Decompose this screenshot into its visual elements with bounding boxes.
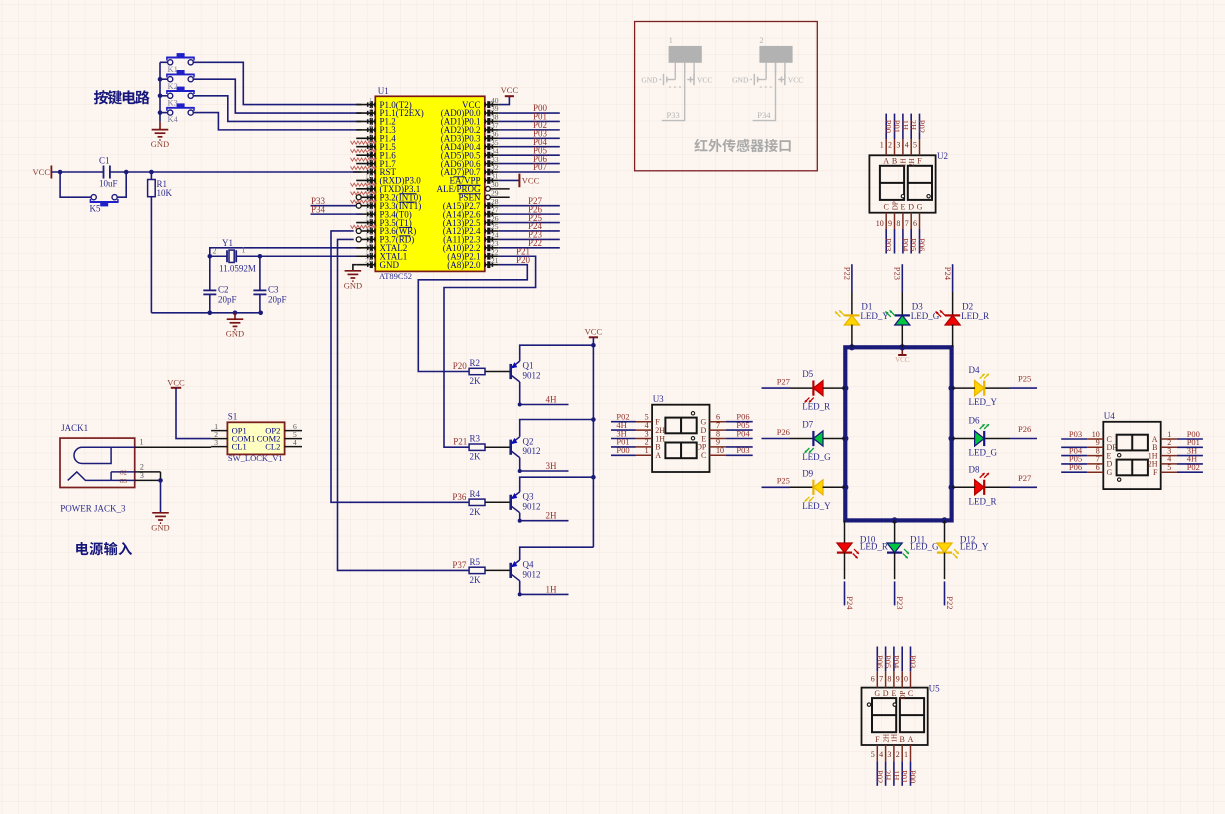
wire net P01 (U4 right) xyxy=(1177,437,1203,447)
wire Q1 collector / net 4H xyxy=(518,382,569,407)
svg-text:P00: P00 xyxy=(616,445,629,455)
wire net P20 (pin21 to R2) xyxy=(418,255,530,372)
wire net P22 (top) xyxy=(842,264,852,315)
svg-text:9012: 9012 xyxy=(523,446,541,456)
svg-text:9012: 9012 xyxy=(523,569,541,579)
svg-text:VCC: VCC xyxy=(522,176,540,186)
wire net P04 (U3 right) xyxy=(726,428,753,438)
U4 right pin 5 xyxy=(1153,463,1177,477)
U3 right pin 10 xyxy=(701,446,726,460)
resistor R3 2K xyxy=(469,434,485,462)
U4 left pin 10 xyxy=(1087,430,1112,444)
wire Q3 emitter to VCC rail xyxy=(520,475,596,492)
op-amp U1 AT89C52 MCU body xyxy=(375,86,485,281)
U2 bottom pin 7 xyxy=(905,203,915,229)
wire net P00 (U4 right) xyxy=(1177,429,1203,439)
U1 pin 36 (AD3)P0.3 xyxy=(441,130,499,144)
resistor R5 2K xyxy=(469,557,485,585)
svg-text:1: 1 xyxy=(904,750,908,759)
svg-text:Q3: Q3 xyxy=(523,492,534,502)
U5 top pin 8 xyxy=(887,671,896,698)
svg-text:4H: 4H xyxy=(546,395,558,405)
svg-text:P23: P23 xyxy=(893,267,903,280)
wire P01 + net label xyxy=(499,112,560,122)
svg-text:9: 9 xyxy=(888,219,892,228)
U3 left pin 1 xyxy=(636,446,661,460)
U1 pin 26 (A13)P2.5 xyxy=(443,214,499,228)
power port VCC (pin31 EA/VPP) xyxy=(499,174,540,188)
U1 pin 4 P1.3 xyxy=(356,121,396,135)
svg-text:F: F xyxy=(917,157,922,166)
wire net P03 (U4 left) xyxy=(1061,429,1087,439)
U1 pin 13 P3.3(INT1) xyxy=(356,197,421,211)
U3 right pin 6 xyxy=(701,413,726,427)
U2 top pin 5 xyxy=(913,139,922,166)
wire net P03 (U3 right) xyxy=(726,445,753,455)
U1 pin 21 (A8)P2.0 xyxy=(447,256,499,270)
U1 pin 40 VCC xyxy=(462,96,499,110)
U4 right pin 1 xyxy=(1152,430,1177,444)
U1 pin 22 (A9)P2.1 xyxy=(447,247,499,261)
U3 left pin 3 xyxy=(636,429,665,443)
pushbutton K4 xyxy=(160,103,195,124)
U1 pin 25 (A12)P2.4 xyxy=(443,222,499,236)
svg-text:B: B xyxy=(892,157,897,166)
wire JACK1 sleeve to ground xyxy=(135,472,163,513)
wire net P05 (U5 top) xyxy=(883,647,893,672)
wire net P06 (U3 right) xyxy=(726,412,753,422)
U5 top pin 6 xyxy=(871,671,881,698)
svg-text:9012: 9012 xyxy=(523,371,541,381)
svg-text:P24: P24 xyxy=(943,267,953,281)
svg-text:D8: D8 xyxy=(969,464,980,474)
wire net P04 (U4 left) xyxy=(1061,445,1087,455)
U5 bottom pin 2 xyxy=(896,735,905,761)
caption 电源输入 xyxy=(76,542,132,555)
svg-text:2K: 2K xyxy=(470,376,482,386)
U1 pin 8 P1.7 xyxy=(351,155,397,169)
svg-text:D9: D9 xyxy=(802,468,813,478)
wire net P00 (U3 left) xyxy=(611,445,636,455)
svg-text:2H: 2H xyxy=(908,158,916,167)
wire net 2H (U2 top) xyxy=(909,114,919,139)
wire R2 to Q1 base xyxy=(485,371,511,373)
svg-text:P34: P34 xyxy=(757,110,771,120)
svg-text:GND: GND xyxy=(226,329,244,339)
wire P22 + net label xyxy=(499,238,560,248)
wire P23 + net label xyxy=(499,230,560,240)
wire Q4 emitter to VCC rail xyxy=(520,547,594,560)
svg-text:1: 1 xyxy=(669,35,673,45)
transistor Q3 9012 xyxy=(511,492,541,513)
wire (U3 right nc) xyxy=(726,446,753,448)
svg-text:P06: P06 xyxy=(1069,462,1082,472)
wire XTAL2 xyxy=(208,248,362,291)
crystal Y1 11.0592M xyxy=(210,238,260,274)
svg-text:P21: P21 xyxy=(453,437,467,447)
svg-text:D7: D7 xyxy=(802,420,813,430)
U2 top pin 3 xyxy=(896,139,907,167)
svg-text:POWER JACK_3: POWER JACK_3 xyxy=(60,504,126,514)
svg-text:5: 5 xyxy=(1167,463,1171,472)
caption 按键电路 xyxy=(94,90,150,104)
wire R5 to Q4 base xyxy=(485,569,511,571)
U1 pin 24 (A11)P2.3 xyxy=(443,231,499,245)
svg-text:2: 2 xyxy=(140,463,144,472)
svg-text:1: 1 xyxy=(645,446,649,455)
svg-text:2H: 2H xyxy=(882,734,890,743)
svg-text:G3: G3 xyxy=(120,479,127,485)
U3 right pin 7 xyxy=(701,421,726,435)
wire JACK1 tip to S1 CL1 xyxy=(135,446,211,448)
wire Q2 emitter to VCC rail xyxy=(520,417,596,437)
svg-text:C: C xyxy=(908,689,913,698)
U3 right pin 9 xyxy=(696,438,726,452)
wire net P05 (U2 bottom) xyxy=(909,229,919,254)
ground rail for buttons xyxy=(158,62,163,122)
svg-text:3: 3 xyxy=(887,750,891,759)
svg-text:1H: 1H xyxy=(900,158,908,167)
junction dots on rectangle xyxy=(842,344,955,523)
svg-text:A: A xyxy=(883,157,889,166)
svg-text:2: 2 xyxy=(213,247,217,256)
U1 pin 38 (AD1)P0.1 xyxy=(441,113,499,127)
ground xyxy=(226,313,244,339)
U5 top pin 10 xyxy=(900,671,913,698)
svg-text:2: 2 xyxy=(759,35,763,45)
svg-text:4: 4 xyxy=(905,141,909,150)
svg-text:DP: DP xyxy=(891,201,899,210)
U1 pin 32 (AD7)P0.7 xyxy=(441,163,499,177)
svg-text:LED_G: LED_G xyxy=(969,448,998,458)
svg-text:5: 5 xyxy=(871,750,875,759)
svg-text:2K: 2K xyxy=(470,575,482,585)
svg-text:P24: P24 xyxy=(845,596,855,610)
U2 top pin 1 xyxy=(880,139,890,166)
resistor R1 10K xyxy=(148,172,173,313)
svg-text:F: F xyxy=(875,735,880,744)
svg-text:P23: P23 xyxy=(895,596,905,609)
U1 pin 34 (AD5)P0.5 xyxy=(441,146,499,160)
svg-text:P02: P02 xyxy=(1187,462,1200,472)
svg-text:SW_LOCK_V1: SW_LOCK_V1 xyxy=(228,453,283,463)
svg-text:5: 5 xyxy=(913,141,917,150)
U2 bottom pin 9 xyxy=(888,201,899,229)
U1 pin 27 (A14)P2.6 xyxy=(443,205,499,219)
wire net P02 (U4 right) xyxy=(1177,462,1203,472)
svg-text:1H: 1H xyxy=(546,584,558,594)
svg-text:2H: 2H xyxy=(546,511,558,521)
svg-text:2K: 2K xyxy=(470,507,482,517)
LED D6 LED_G xyxy=(952,416,998,458)
U1 pin 35 (AD4)P0.4 xyxy=(441,138,499,152)
svg-text:7: 7 xyxy=(879,675,883,684)
svg-text:Y1: Y1 xyxy=(222,238,233,248)
svg-text:P21: P21 xyxy=(516,246,530,256)
U1 pin 14 P3.4(T0) xyxy=(356,206,412,220)
wire net P37 (pin17 to R5) xyxy=(338,239,470,570)
7-segment display U5 body xyxy=(862,684,941,746)
U2 bottom pin 10 xyxy=(876,203,889,229)
wire net P26 (left) xyxy=(762,427,814,439)
wire P05 + net label xyxy=(499,145,560,155)
7-segment display U4 body xyxy=(1103,411,1160,489)
svg-text:F: F xyxy=(1153,468,1158,477)
svg-text:LED_R: LED_R xyxy=(802,402,830,412)
pushbutton K2 xyxy=(160,70,195,91)
svg-text:6: 6 xyxy=(871,675,875,684)
wire net P02 (U2 top) xyxy=(917,114,927,139)
wire P33 xyxy=(311,196,357,206)
svg-text:P04: P04 xyxy=(891,655,901,669)
svg-text:3H: 3H xyxy=(546,461,558,471)
wire net 2H (U5 bottom) xyxy=(883,761,893,786)
svg-text:D: D xyxy=(883,689,889,698)
svg-text:P20: P20 xyxy=(453,361,468,371)
U1 pin 20 GND xyxy=(356,256,399,270)
wire P34 xyxy=(311,204,362,214)
U3 left pin 2 xyxy=(636,438,661,452)
U1 pin 10 (RXD)P3.0 xyxy=(351,172,422,186)
svg-text:R5: R5 xyxy=(470,557,481,567)
svg-text:CL1: CL1 xyxy=(232,442,247,452)
svg-text:VCC: VCC xyxy=(501,85,519,95)
svg-text:P02: P02 xyxy=(917,120,927,133)
svg-text:1: 1 xyxy=(140,438,144,447)
svg-text:Q4: Q4 xyxy=(523,560,534,570)
U4 left pin 6 xyxy=(1087,463,1112,477)
transistor Q2 9012 xyxy=(511,436,541,457)
U3 right pin 8 xyxy=(701,429,725,443)
svg-text:D6: D6 xyxy=(969,416,980,426)
svg-text:U5: U5 xyxy=(929,684,940,694)
wire P34 (sensor 2) xyxy=(753,63,776,121)
wire net P04 (U2 bottom) xyxy=(900,229,910,254)
svg-text:LED_G: LED_G xyxy=(802,452,831,462)
wire net 1H (U5 bottom) xyxy=(891,761,901,786)
svg-text:K3: K3 xyxy=(168,97,178,107)
svg-text:20pF: 20pF xyxy=(218,295,237,305)
power port VCC (crossing) xyxy=(895,347,910,364)
wire net P21 (pin22 to R3) xyxy=(444,246,536,447)
resistor R2 2K xyxy=(469,358,485,386)
power port VCC (driver rail) xyxy=(585,327,603,548)
LED D3 LED_G xyxy=(885,302,940,348)
capacitor C2 20pF xyxy=(203,285,236,313)
svg-text:1: 1 xyxy=(880,141,884,150)
wire Q4 collector / net 1H xyxy=(518,581,569,597)
U4 left pin 8 xyxy=(1087,446,1111,460)
wire (U5 top nc) xyxy=(901,647,903,672)
wire (U4 left nc) xyxy=(1061,446,1087,448)
wire K2 to U1 pin 2 xyxy=(193,79,361,113)
wire VCC to C1 to RST xyxy=(51,170,361,175)
svg-text:D4: D4 xyxy=(969,365,980,375)
U4 right pin 2 xyxy=(1152,438,1177,452)
svg-text:2: 2 xyxy=(896,750,900,759)
LED D12 LED_Y xyxy=(937,520,989,558)
wire net P23 (bottom) xyxy=(895,553,905,610)
svg-text:LED_R: LED_R xyxy=(969,496,997,506)
wire net P26 (right) xyxy=(984,424,1037,439)
wire K1 to U1 pin 1 xyxy=(193,62,361,104)
U1 pin 2 P1.1(T2EX) xyxy=(356,105,424,119)
svg-text:20: 20 xyxy=(365,256,373,265)
U1 pin 19 XTAL1 xyxy=(356,248,407,262)
wire net P00 (U2 top) xyxy=(884,114,894,139)
U4 left pin 7 xyxy=(1087,455,1112,469)
svg-text:P27: P27 xyxy=(777,376,790,386)
svg-text:LED_Y: LED_Y xyxy=(802,501,831,511)
svg-text:E: E xyxy=(900,203,905,212)
svg-text:GND: GND xyxy=(732,76,749,85)
wire P24 + net label xyxy=(499,221,560,231)
svg-text:GND: GND xyxy=(641,76,658,85)
wire net P02 (U5 bottom) xyxy=(875,761,885,786)
wire P04 + net label xyxy=(499,137,560,147)
wire P03 + net label xyxy=(499,129,560,139)
ground xyxy=(151,513,169,533)
U1 pin 37 (AD2)P0.2 xyxy=(441,121,499,135)
svg-text:P04: P04 xyxy=(736,428,750,438)
LED D2 LED_R xyxy=(936,302,990,348)
svg-text:P00: P00 xyxy=(908,770,918,783)
pushbutton K5 xyxy=(90,195,119,214)
pushbutton K1 xyxy=(160,53,195,74)
ground xyxy=(151,122,169,149)
resistor R4 2K xyxy=(469,489,485,517)
svg-text:(A8)P2.0: (A8)P2.0 xyxy=(447,260,481,270)
U3 left pin 5 xyxy=(636,413,660,427)
wire net P23 (top) xyxy=(893,264,903,315)
svg-text:LED_R: LED_R xyxy=(860,542,888,552)
wire net P03 (U2 bottom) xyxy=(884,229,894,254)
U1 pin 18 XTAL2 xyxy=(356,239,407,253)
LED D1 LED_Y xyxy=(835,302,890,348)
U1 pin 17 P3.7(RD) xyxy=(356,231,414,245)
svg-text:10uF: 10uF xyxy=(99,179,118,189)
svg-text:P22: P22 xyxy=(528,238,542,248)
svg-text:VCC: VCC xyxy=(788,76,803,85)
wire net P24 (bottom) xyxy=(845,553,855,611)
wire K5 branch xyxy=(60,172,126,197)
svg-text:VCC: VCC xyxy=(895,356,910,364)
svg-text:P33: P33 xyxy=(667,110,680,120)
wire net P27 (left) xyxy=(762,376,814,388)
wire net P06 (U2 bottom) xyxy=(917,229,927,254)
LED D8 LED_R xyxy=(952,464,997,506)
svg-text:21: 21 xyxy=(491,256,499,265)
svg-text:A: A xyxy=(655,451,661,460)
wire XTAL1 xyxy=(258,254,362,290)
svg-text:U4: U4 xyxy=(1104,411,1115,421)
svg-text:P03: P03 xyxy=(1069,429,1082,439)
svg-text:U2: U2 xyxy=(937,151,948,161)
7-segment display U2 body xyxy=(869,151,948,213)
U2 top pin 2 xyxy=(888,139,897,166)
svg-text:JACK1: JACK1 xyxy=(61,423,88,433)
wire K4 to U1 pin 4 xyxy=(193,113,361,130)
svg-text:LED_G: LED_G xyxy=(910,542,939,552)
pushbutton K3 xyxy=(160,87,195,108)
svg-text:D: D xyxy=(908,203,914,212)
svg-text:VCC: VCC xyxy=(167,378,185,388)
svg-text:K1: K1 xyxy=(168,64,178,74)
wire net P24 (top) xyxy=(943,264,953,315)
U1 pin 23 (A10)P2.2 xyxy=(443,239,499,253)
U2 bottom pin 6 xyxy=(913,203,923,229)
svg-text:10: 10 xyxy=(716,446,724,455)
wire net P05 (U4 left) xyxy=(1061,454,1087,464)
svg-text:C: C xyxy=(701,451,706,460)
svg-text:U3: U3 xyxy=(653,394,664,404)
svg-text:4: 4 xyxy=(879,750,883,759)
wire net P00 (U5 bottom) xyxy=(908,761,918,786)
svg-text:E: E xyxy=(891,689,896,698)
svg-text:3: 3 xyxy=(214,438,218,447)
svg-text:P07: P07 xyxy=(533,162,548,172)
U1 pin 29 PSEN xyxy=(458,188,509,202)
svg-text:LED_Y: LED_Y xyxy=(960,542,989,552)
svg-text:2: 2 xyxy=(888,141,892,150)
svg-text:CL2: CL2 xyxy=(265,442,280,452)
U1 pin 28 (A15)P2.7 xyxy=(443,197,499,211)
LED D7 LED_G xyxy=(802,420,845,463)
svg-text:R4: R4 xyxy=(470,489,481,499)
wire net 3H (U4 right) xyxy=(1177,445,1203,455)
wire net P25 (left) xyxy=(762,476,814,488)
wire P33 (sensor 1) xyxy=(662,63,685,121)
svg-text:C: C xyxy=(884,203,889,212)
svg-text:10K: 10K xyxy=(157,188,173,198)
svg-text:K5: K5 xyxy=(90,204,101,214)
wire net 4H (U4 right) xyxy=(1177,454,1203,464)
svg-text:G: G xyxy=(1107,468,1113,477)
wire P00 + net label xyxy=(499,103,560,113)
wire Q2 collector / net 3H xyxy=(518,458,569,473)
svg-text:GND: GND xyxy=(344,280,362,290)
svg-text:P37: P37 xyxy=(452,560,467,570)
wire P27 + net label xyxy=(499,196,560,206)
wire net 1H (U2 top) xyxy=(900,114,910,139)
wire K3 to U1 pin 3 xyxy=(193,96,361,122)
svg-text:20pF: 20pF xyxy=(268,295,287,305)
infrared sensor interface block frame xyxy=(635,22,818,171)
U1 pin 11 (TXD)P3.1 xyxy=(351,180,421,194)
wire P06 + net label xyxy=(499,154,560,164)
svg-text:C2: C2 xyxy=(218,285,229,295)
svg-text:P22: P22 xyxy=(945,596,955,609)
svg-text:9012: 9012 xyxy=(523,501,541,511)
svg-text:B: B xyxy=(900,735,905,744)
wire R3 to Q2 base xyxy=(485,446,511,448)
svg-text:S1: S1 xyxy=(228,412,238,422)
U4 right pin 4 xyxy=(1148,455,1177,469)
U1 pin 15 P3.5(T1) xyxy=(351,214,412,228)
transistor Q1 9012 xyxy=(511,361,541,382)
svg-text:G: G xyxy=(874,689,880,698)
transistor Q4 9012 xyxy=(511,560,541,581)
U2 bottom pin 8 xyxy=(896,203,905,229)
svg-text:K4: K4 xyxy=(168,114,179,124)
wire net P01 (U3 left) xyxy=(611,437,636,447)
svg-text:DP: DP xyxy=(899,690,907,699)
svg-text:GND: GND xyxy=(151,139,169,149)
U1 pin 1 P1.0(T2) xyxy=(356,96,412,110)
svg-text:LED_G: LED_G xyxy=(911,311,940,321)
wire net P02 (U3 left) xyxy=(611,412,636,422)
IR sensor 1 xyxy=(641,35,712,87)
